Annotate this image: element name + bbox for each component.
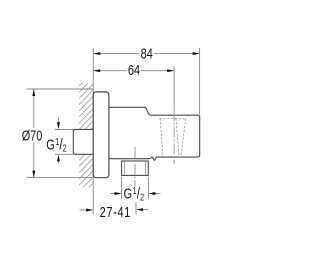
- svg-text:84: 84: [141, 45, 153, 62]
- svg-text:64: 64: [128, 61, 140, 78]
- svg-text:Ø70: Ø70: [22, 127, 43, 144]
- svg-text:27-41: 27-41: [100, 203, 131, 220]
